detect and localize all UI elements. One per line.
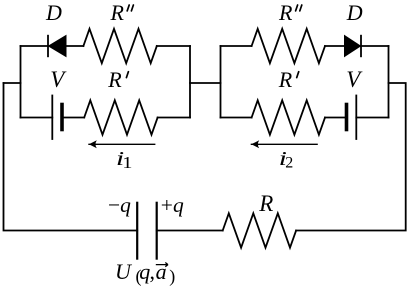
svg-text:,: , <box>150 259 156 284</box>
svg-text:): ) <box>169 266 175 287</box>
svg-text:R: R <box>278 67 293 92</box>
svg-text:2: 2 <box>285 155 293 172</box>
svg-text:V: V <box>346 67 363 92</box>
svg-text:1: 1 <box>122 154 132 173</box>
svg-text:−q: −q <box>108 193 131 217</box>
svg-text:R: R <box>258 191 273 216</box>
svg-text:+q: +q <box>161 193 184 217</box>
svg-text:D: D <box>45 0 62 25</box>
svg-text:R: R <box>278 0 293 25</box>
svg-text:D: D <box>346 0 363 25</box>
svg-text:R: R <box>110 0 125 25</box>
svg-text:R: R <box>107 67 122 92</box>
svg-text:U: U <box>115 259 133 284</box>
svg-text:V: V <box>50 67 67 92</box>
svg-text:a: a <box>156 259 167 284</box>
